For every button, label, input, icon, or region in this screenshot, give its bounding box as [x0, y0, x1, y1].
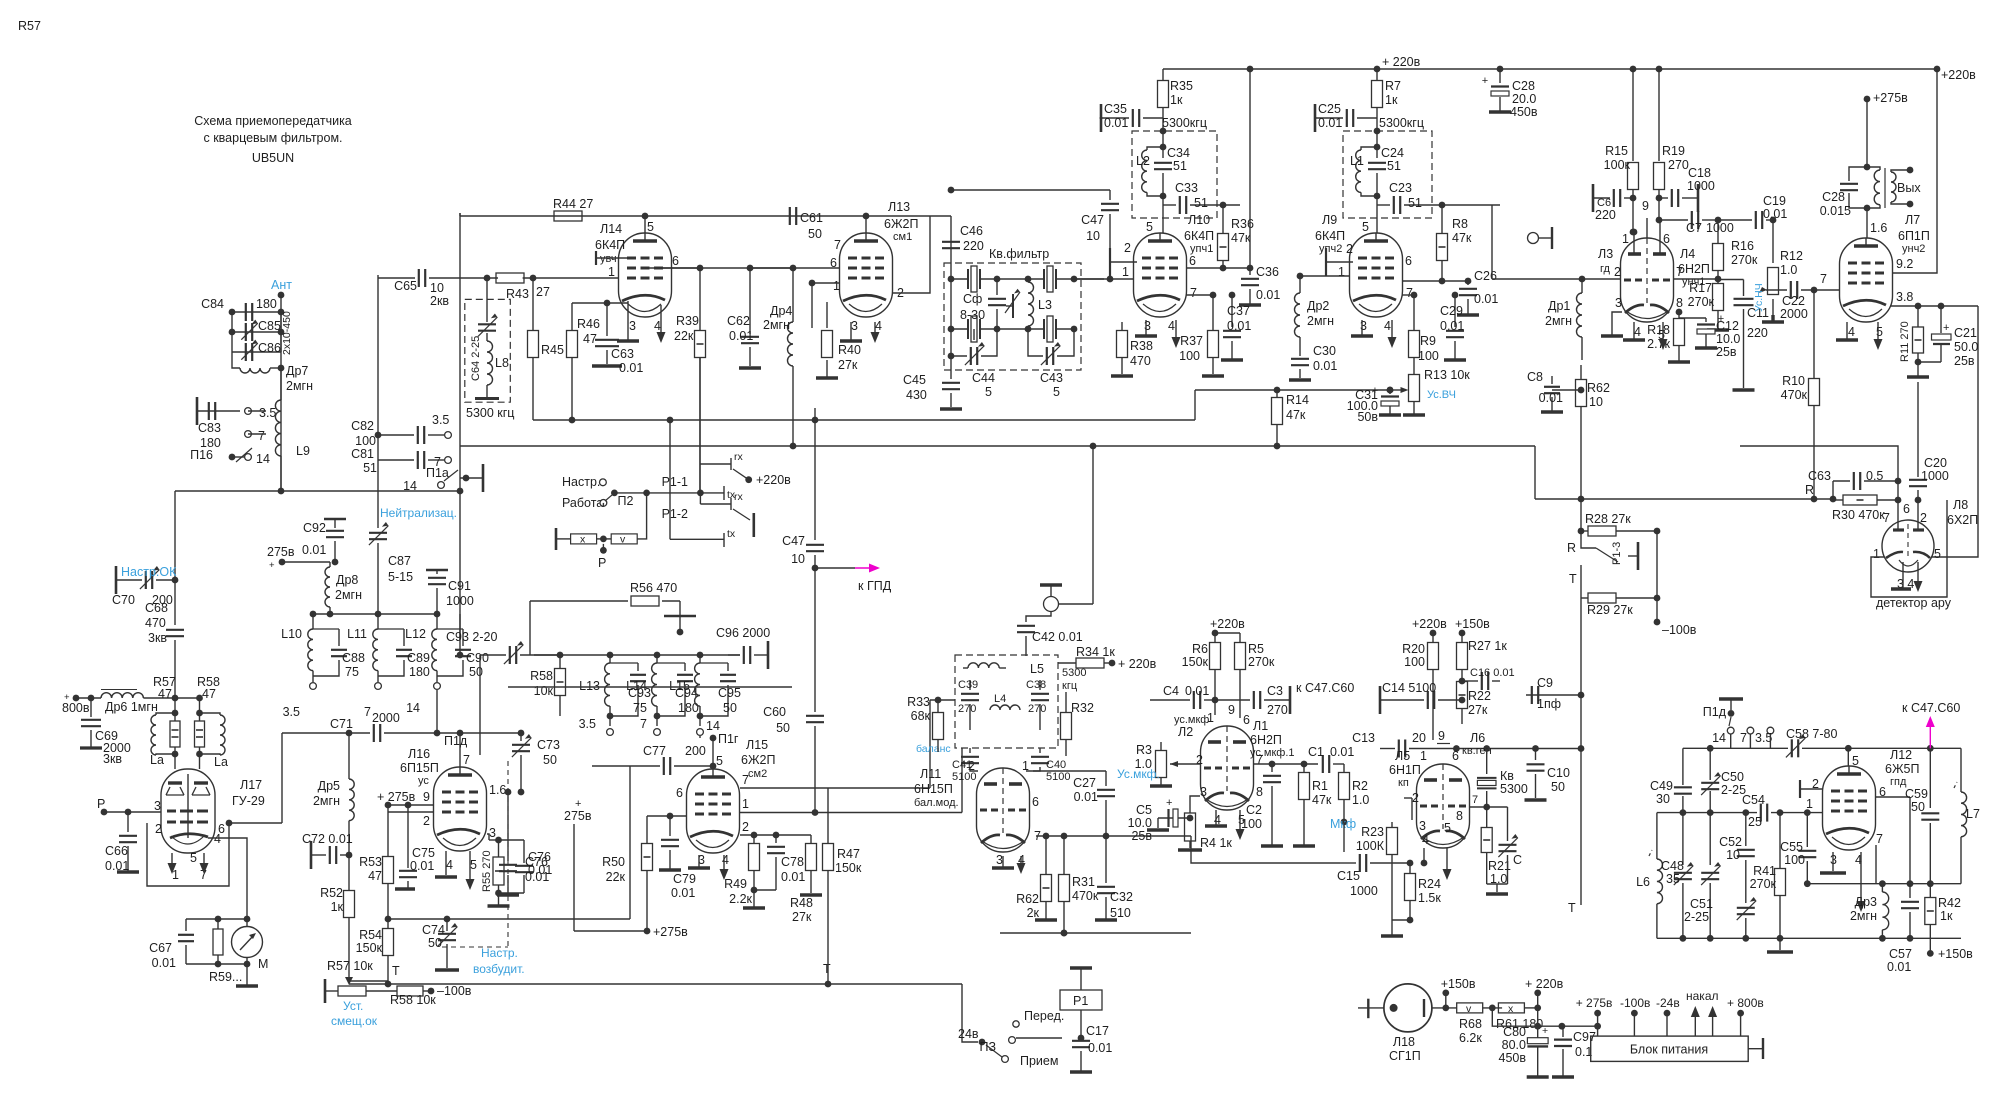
- svg-text:Др1: Др1: [1548, 299, 1570, 313]
- capacitor C36 0.01: [1249, 268, 1251, 275]
- svg-text:Ант: Ант: [271, 278, 292, 292]
- svg-text:450в: 450в: [1499, 1051, 1527, 1065]
- capacitor C26 0.01: [1403, 280, 1468, 282]
- svg-text:3.5: 3.5: [283, 705, 300, 719]
- svg-text:5300: 5300: [1062, 667, 1086, 679]
- resistor R56 470: [530, 600, 628, 602]
- resistor R37 100: [1212, 295, 1214, 331]
- svg-text:C23: C23: [1389, 181, 1412, 195]
- svg-text:Р1-1: Р1-1: [662, 475, 688, 489]
- svg-text:C89: C89: [407, 651, 430, 665]
- svg-text:Р1-2: Р1-2: [662, 507, 688, 521]
- svg-text:C10: C10: [1547, 766, 1570, 780]
- variable capacitor C74 50: [446, 919, 448, 931]
- svg-text:0.01: 0.01: [105, 859, 129, 873]
- svg-text:30: 30: [1656, 792, 1670, 806]
- svg-text:C58 7-80: C58 7-80: [1786, 727, 1837, 741]
- wire psu feed line: [1492, 1008, 1597, 1026]
- svg-text:C76: C76: [525, 855, 548, 869]
- svg-text:R52: R52: [320, 886, 343, 900]
- wire L3 cathode pin3: [1612, 312, 1622, 336]
- svg-text:100: 100: [355, 434, 376, 448]
- capacitor C76 0.01: [499, 864, 517, 866]
- wire L12 plate: [1847, 748, 1849, 766]
- svg-text:0.01: 0.01: [1256, 288, 1280, 302]
- svg-text:C54: C54: [1742, 793, 1765, 807]
- svg-text:Настр.: Настр.: [481, 946, 518, 960]
- svg-text:100: 100: [1179, 349, 1200, 363]
- wire P2 common: [614, 492, 724, 494]
- svg-text:0.01: 0.01: [619, 361, 643, 375]
- capacitor C63 0.5: [1832, 481, 1834, 500]
- svg-text:Ус.мкф.: Ус.мкф.: [1117, 767, 1160, 781]
- wire plate drops L3 L4: [1632, 69, 1634, 161]
- contact boxes x v: [555, 528, 558, 550]
- svg-text:4: 4: [1848, 325, 1855, 339]
- svg-text:к С47.С60: к С47.С60: [1902, 701, 1960, 715]
- svg-text:смещ.ок: смещ.ок: [331, 1014, 378, 1028]
- svg-text:Л17: Л17: [240, 778, 262, 792]
- svg-text:C37: C37: [1227, 304, 1250, 318]
- svg-text:10: 10: [430, 281, 444, 295]
- resistor R58 10k tank: [559, 655, 561, 668]
- capacitor C19 0.01: [1718, 219, 1752, 221]
- svg-text:27к: 27к: [792, 910, 812, 924]
- svg-text:6: 6: [1243, 713, 1250, 727]
- wire L11 pin7 bus: [1036, 835, 1191, 837]
- svg-text:6: 6: [1452, 749, 1459, 763]
- svg-text:Л8: Л8: [1953, 498, 1968, 512]
- electrolytic C5 10.0 25v: [1190, 796, 1200, 813]
- svg-text:2мгн: 2мгн: [313, 794, 340, 808]
- variable capacitor C73 50: [520, 733, 522, 741]
- choke Dr7 2mgn: [232, 352, 240, 368]
- svg-text:Ус.НЧ: Ус.НЧ: [1753, 283, 1765, 312]
- wire L14 screen right: [663, 267, 700, 269]
- svg-text:2000: 2000: [372, 711, 400, 725]
- choke Dr2 2mgn: [1299, 276, 1301, 293]
- capacitor C45 430: [950, 356, 952, 379]
- svg-text:1к: 1к: [1385, 93, 1398, 107]
- svg-text:1: 1: [833, 279, 840, 293]
- resistor R10 470k: [1813, 290, 1815, 378]
- svg-text:C90: C90: [466, 651, 489, 665]
- svg-text:100: 100: [1784, 853, 1805, 867]
- resistor R50 22k: [646, 816, 648, 843]
- capacitor C25 0.01: [1314, 104, 1317, 132]
- resistor R8 47k: [1441, 205, 1443, 233]
- svg-text:R33: R33: [907, 695, 930, 709]
- quartz Kv 5300: [1486, 749, 1488, 775]
- svg-text:7: 7: [742, 773, 749, 787]
- svg-text:Кв: Кв: [1500, 769, 1514, 783]
- svg-text:C7: C7: [1686, 221, 1702, 235]
- capacitor C8 0.01: [1552, 389, 1581, 391]
- svg-text:2-25: 2-25: [1684, 910, 1709, 924]
- svg-text:Л6: Л6: [1470, 731, 1485, 745]
- capacitor C47 10: [951, 189, 1110, 191]
- ground arrow GU29 pin1: [171, 853, 173, 865]
- parasitic choke La right: [200, 713, 221, 715]
- svg-text:R12: R12: [1780, 249, 1803, 263]
- svg-text:Л14: Л14: [600, 222, 622, 236]
- svg-text:35: 35: [1666, 872, 1680, 886]
- svg-text:Др6 1мгн: Др6 1мгн: [105, 700, 158, 714]
- svg-text:7: 7: [1256, 753, 1263, 767]
- wire mic line down: [1343, 822, 1345, 852]
- svg-text:7: 7: [834, 238, 841, 252]
- svg-text:+: +: [64, 692, 70, 703]
- resistor R62 10: [1580, 378, 1582, 380]
- svg-text:3: 3: [1144, 319, 1151, 333]
- svg-text:Уст.: Уст.: [343, 999, 363, 1013]
- svg-text:47к: 47к: [1286, 408, 1306, 422]
- svg-text:+220в: +220в: [756, 473, 791, 487]
- tube L8 6X2P agc detector: [1882, 520, 1934, 572]
- variable capacitor C50 2-25: [1709, 748, 1711, 780]
- svg-text:5: 5: [1053, 385, 1060, 399]
- svg-text:C72 0.01: C72 0.01: [302, 832, 353, 846]
- tube L2 L1 6N2P usmkf: [1201, 726, 1254, 810]
- svg-text:Настр.ОК: Настр.ОК: [121, 565, 177, 579]
- tube L10 6K4P upch1: [1134, 233, 1187, 317]
- svg-text:L6: L6: [1636, 875, 1650, 889]
- svg-text:3.5: 3.5: [259, 406, 276, 420]
- svg-text:7: 7: [258, 429, 265, 443]
- capacitor C20 1000: [1917, 382, 1919, 477]
- svg-text:+: +: [269, 560, 275, 571]
- svg-text:7: 7: [1740, 731, 1747, 745]
- capacitor C35 0.01: [1100, 117, 1103, 119]
- wire AGC top corner: [1740, 446, 1898, 530]
- inductor L4 balance: [990, 705, 1020, 710]
- wire mic connector drop: [1092, 446, 1094, 604]
- svg-text:51: 51: [1194, 196, 1208, 210]
- wire +220v top rail: [1163, 68, 1937, 70]
- wire grid2 pin6: [281, 733, 283, 823]
- svg-text:tx: tx: [727, 528, 736, 540]
- parasitic choke La left: [156, 713, 175, 715]
- crystal bottom left: [967, 319, 969, 339]
- wire cathode bus y420: [533, 419, 1195, 421]
- svg-text:100К: 100К: [1356, 839, 1385, 853]
- svg-text:2мгн: 2мгн: [335, 588, 362, 602]
- resistor R42 1k: [1929, 884, 1931, 897]
- svg-text:C59: C59: [1905, 787, 1928, 801]
- svg-text:51: 51: [1408, 196, 1422, 210]
- svg-text:+: +: [1166, 797, 1172, 809]
- wire L5 cathode: [1423, 848, 1425, 863]
- wire C82 bus link: [377, 275, 379, 435]
- svg-text:Л13: Л13: [888, 200, 910, 214]
- ground under meter: [246, 964, 248, 986]
- ground L7 pin4: [1846, 322, 1848, 340]
- svg-text:2: 2: [1412, 791, 1419, 805]
- svg-text:см1: см1: [893, 231, 912, 243]
- phone connector: [1528, 233, 1539, 244]
- label +275v bottom: [644, 928, 651, 935]
- svg-text:5: 5: [647, 220, 654, 234]
- svg-text:47к: 47к: [1312, 793, 1332, 807]
- svg-text:3: 3: [489, 826, 496, 840]
- tank L13: [609, 655, 611, 663]
- svg-text:C80: C80: [1503, 1025, 1526, 1039]
- svg-text:0.01: 0.01: [1074, 790, 1098, 804]
- wire exciter top link: [459, 213, 461, 216]
- svg-text:+150в: +150в: [1938, 947, 1973, 961]
- capacitor C83 180: [197, 410, 240, 412]
- svg-text:C36: C36: [1256, 265, 1279, 279]
- svg-text:v: v: [1466, 1003, 1472, 1015]
- variable capacitor C51 2-25: [1709, 813, 1711, 865]
- svg-text:270: 270: [1028, 703, 1046, 715]
- svg-text:220: 220: [1747, 326, 1768, 340]
- wire plates into tube: [174, 754, 176, 769]
- wire left vert x1535: [1534, 446, 1536, 499]
- svg-text:5: 5: [716, 754, 723, 768]
- svg-text:C81: C81: [351, 447, 374, 461]
- capacitor C60 50: [806, 715, 824, 717]
- tank C94 180: [657, 662, 685, 664]
- svg-text:+275в: +275в: [1873, 91, 1908, 105]
- svg-text:7: 7: [640, 717, 647, 731]
- tube L14 6K4P uvch: [619, 233, 672, 317]
- svg-text:275в: 275в: [267, 545, 295, 559]
- svg-text:R53: R53: [359, 855, 382, 869]
- svg-text:+: +: [1482, 75, 1488, 87]
- svg-text:3.5: 3.5: [579, 717, 596, 731]
- variable capacitor C64 2-25: [486, 278, 488, 322]
- svg-text:150к: 150к: [356, 941, 383, 955]
- svg-text:C28: C28: [1512, 79, 1535, 93]
- wire L15 cathode pin3: [698, 855, 700, 868]
- svg-text:200: 200: [685, 744, 706, 758]
- svg-text:L4: L4: [994, 693, 1006, 705]
- svg-text:C63: C63: [1808, 469, 1831, 483]
- svg-text:Работа: Работа: [562, 496, 603, 510]
- svg-text:R41: R41: [1753, 864, 1776, 878]
- svg-text:0.01: 0.01: [1185, 684, 1209, 698]
- svg-text:C38: C38: [1026, 679, 1046, 691]
- svg-text:R56 470: R56 470: [630, 581, 677, 595]
- svg-text:C95: C95: [718, 686, 741, 700]
- tank C90 50: [437, 628, 463, 630]
- svg-text:С: С: [1513, 853, 1522, 867]
- svg-text:C21: C21: [1954, 326, 1977, 340]
- resistor R34 1k: [1058, 662, 1076, 664]
- svg-text:П1д: П1д: [1703, 705, 1727, 719]
- svg-text:1: 1: [1122, 265, 1129, 279]
- svg-text:C71: C71: [330, 717, 353, 731]
- svg-text:1к: 1к: [331, 900, 344, 914]
- svg-text:C77: C77: [643, 744, 666, 758]
- resistor R7 1k: [1376, 69, 1378, 81]
- svg-text:47: 47: [583, 332, 597, 346]
- svg-text:C33: C33: [1175, 181, 1198, 195]
- capacitor C41 5100: [969, 748, 971, 753]
- wire x1581 vertical: [1580, 408, 1582, 499]
- tube L16 6P15P us: [434, 767, 487, 851]
- svg-text:7: 7: [1472, 794, 1478, 806]
- svg-text:Ус.ВЧ: Ус.ВЧ: [1427, 389, 1456, 401]
- wire L13 plate pin5: [865, 216, 867, 233]
- svg-text:1к: 1к: [1170, 93, 1183, 107]
- svg-text:180: 180: [409, 665, 430, 679]
- capacitor C10 50: [1535, 749, 1537, 761]
- ground L16 pin4: [445, 851, 447, 875]
- resistor R39 22k: [699, 268, 701, 331]
- microphone connector: [1040, 583, 1062, 586]
- svg-text:+: +: [1542, 1025, 1548, 1037]
- svg-text:C78: C78: [781, 855, 804, 869]
- svg-text:7: 7: [1883, 511, 1890, 525]
- capacitor C63 0.01: [606, 303, 608, 336]
- potentiometer R13 10k: [1409, 375, 1420, 402]
- svg-text:C66: C66: [105, 844, 128, 858]
- svg-text:Блок питания: Блок питания: [1630, 1043, 1708, 1057]
- svg-text:430: 430: [906, 388, 927, 402]
- svg-text:0.01: 0.01: [1330, 745, 1354, 759]
- svg-text:6Ж5П: 6Ж5П: [1885, 762, 1919, 776]
- svg-text:C55: C55: [1780, 840, 1803, 854]
- svg-text:см2: см2: [748, 768, 767, 780]
- meter M: [244, 916, 251, 923]
- wire L7 cathode 3.8: [1890, 305, 1978, 307]
- svg-text:+275в: +275в: [653, 925, 688, 939]
- svg-text:8: 8: [1256, 785, 1263, 799]
- svg-text:5: 5: [1852, 754, 1859, 768]
- svg-text:v: v: [620, 534, 626, 546]
- svg-text:–100в: –100в: [1662, 623, 1697, 637]
- capacitor C92 0.01: [324, 518, 346, 521]
- ground L9 pin3: [1351, 334, 1373, 337]
- svg-text:Настр.: Настр.: [562, 475, 600, 489]
- wire L6 top bus: [1409, 748, 1581, 750]
- svg-text:C2: C2: [1246, 803, 1262, 817]
- svg-text:La: La: [150, 753, 164, 767]
- svg-text:22к: 22к: [606, 870, 626, 884]
- svg-text:C88: C88: [342, 651, 365, 665]
- wire tank top bus: [313, 613, 437, 615]
- resistor R17 270k: [1717, 279, 1719, 283]
- svg-text:4: 4: [875, 319, 882, 333]
- svg-text:27к: 27к: [838, 358, 858, 372]
- resistor R24 1.5k: [1409, 863, 1411, 873]
- ground arrow pin5: [1662, 322, 1664, 341]
- svg-text:rx: rx: [734, 491, 743, 503]
- svg-text:24в: 24в: [958, 1027, 979, 1041]
- svg-text:4: 4: [722, 853, 729, 867]
- svg-text:10.0: 10.0: [1128, 816, 1152, 830]
- svg-text:R29 27к: R29 27к: [1587, 603, 1633, 617]
- wire T bus y919: [388, 918, 630, 920]
- svg-text:L1: L1: [1350, 154, 1364, 168]
- svg-text:0.01: 0.01: [410, 859, 434, 873]
- svg-text:6К4П: 6К4П: [595, 238, 625, 252]
- svg-text:C84: C84: [201, 297, 224, 311]
- svg-text:R50: R50: [602, 855, 625, 869]
- wire +220 drop to R36: [1249, 69, 1251, 268]
- svg-text:3: 3: [851, 319, 858, 333]
- svg-text:C42 0.01: C42 0.01: [1032, 630, 1083, 644]
- svg-text:1: 1: [742, 797, 749, 811]
- svg-text:2: 2: [423, 814, 430, 828]
- svg-text:x: x: [1508, 1003, 1514, 1015]
- svg-text:5: 5: [1146, 220, 1153, 234]
- svg-text:5: 5: [1444, 821, 1451, 835]
- choke Dr3 2mgn: [1881, 884, 1883, 892]
- svg-text:4: 4: [1422, 833, 1429, 847]
- svg-text:C16 0.01: C16 0.01: [1470, 667, 1515, 679]
- capacitor C4 0.01: [1150, 699, 1190, 701]
- grid stopper bar L12: [1799, 780, 1801, 798]
- tank tap 14 P1d: [434, 683, 441, 690]
- svg-text:0.015: 0.015: [1820, 204, 1851, 218]
- svg-text:3: 3: [154, 799, 161, 813]
- svg-text:увч: увч: [600, 253, 617, 265]
- svg-text:1000: 1000: [446, 594, 474, 608]
- wire L14 grid3: [596, 257, 627, 259]
- svg-text:3: 3: [1419, 819, 1426, 833]
- svg-text:Л4: Л4: [1680, 247, 1695, 261]
- svg-text:С17: С17: [1086, 1024, 1109, 1038]
- resistor R30 470k: [1833, 499, 1843, 501]
- svg-text:Т: Т: [1569, 572, 1577, 586]
- tank C88 75: [313, 628, 339, 630]
- svg-text:Р1-3: Р1-3: [1611, 542, 1623, 565]
- svg-text:6: 6: [1405, 254, 1412, 268]
- choke Dr1 2mgn: [1581, 279, 1583, 293]
- svg-text:C9: C9: [1537, 676, 1553, 690]
- svg-text:Кв.фильтр: Кв.фильтр: [989, 247, 1049, 261]
- wire L8 bottom box: [1871, 500, 1947, 597]
- tube L17 GU-29: [161, 769, 215, 853]
- svg-text:R31: R31: [1072, 875, 1095, 889]
- resistor R14 47k: [1276, 390, 1278, 397]
- resistor R9 100: [1413, 295, 1415, 331]
- capacitor C61 50: [789, 207, 791, 225]
- ground arrow GU29 pin7: [203, 853, 205, 865]
- svg-text:5300 кгц: 5300 кгц: [466, 406, 514, 420]
- svg-text:1.6: 1.6: [489, 783, 506, 797]
- svg-text:2кв: 2кв: [430, 294, 449, 308]
- svg-text:7: 7: [1190, 286, 1197, 300]
- wire tank mid bus: [1657, 812, 1757, 814]
- wire grid bus y279: [1492, 278, 1620, 280]
- svg-text:+: +: [1943, 322, 1949, 334]
- svg-text:80.0: 80.0: [1502, 1038, 1526, 1052]
- svg-text:470: 470: [145, 616, 166, 630]
- svg-text:Л5: Л5: [1395, 749, 1410, 763]
- svg-text:Мкф: Мкф: [1330, 817, 1356, 831]
- svg-text:R14: R14: [1286, 393, 1309, 407]
- svg-text:C19: C19: [1763, 194, 1786, 208]
- svg-text:R43: R43: [506, 287, 529, 301]
- svg-text:6: 6: [1663, 232, 1670, 246]
- svg-text:5: 5: [985, 385, 992, 399]
- svg-text:2мгн: 2мгн: [286, 379, 313, 393]
- svg-text:R40: R40: [838, 343, 861, 357]
- svg-text:5300кгц: 5300кгц: [1162, 116, 1207, 130]
- svg-text:1.0: 1.0: [1780, 263, 1797, 277]
- svg-text:R34 1к: R34 1к: [1076, 645, 1115, 659]
- svg-text:R2: R2: [1352, 779, 1368, 793]
- capacitor C84 180: [232, 311, 281, 313]
- svg-text:C50: C50: [1721, 770, 1744, 784]
- capacitor C65 10 2kv: [378, 277, 415, 279]
- svg-text:27к: 27к: [1468, 703, 1488, 717]
- svg-text:R20: R20: [1402, 642, 1425, 656]
